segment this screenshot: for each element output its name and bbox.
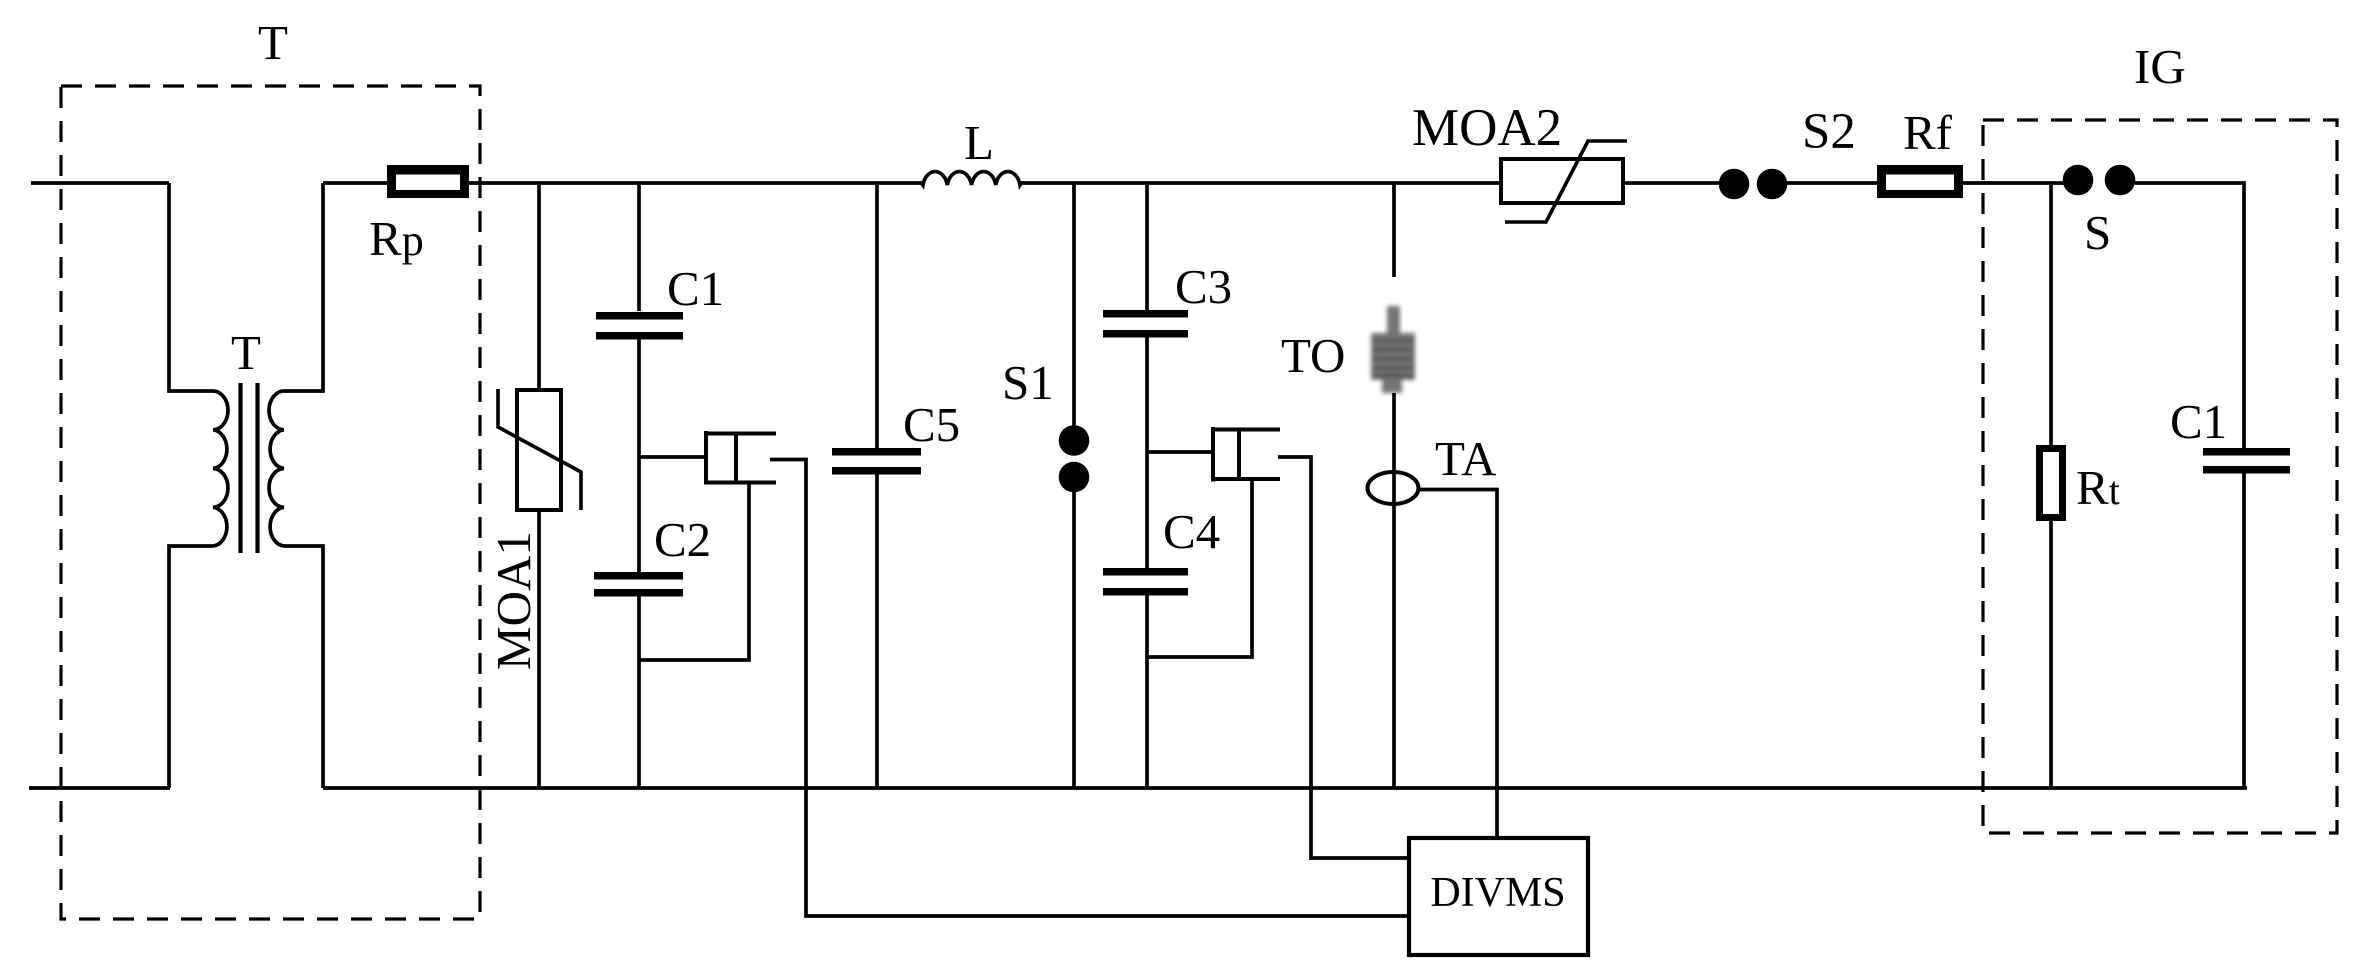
svg-text:C1: C1: [667, 261, 724, 316]
bushing TO: [1371, 306, 1415, 393]
wire right winding top lead: [284, 183, 323, 391]
svg-text:T: T: [258, 15, 288, 70]
svg-text:C3: C3: [1175, 259, 1232, 314]
wire MOA1 branch bottom: [537, 510, 541, 788]
svg-text:C2: C2: [654, 512, 711, 567]
capacitor C1 (IG): [2203, 448, 2290, 474]
capacitor C3: [1103, 310, 1188, 338]
svg-text:S1: S1: [1002, 355, 1054, 410]
wire C3 branch top: [1145, 183, 1149, 310]
svg-text:C1: C1: [2170, 394, 2227, 449]
wire MOA2 to S2: [1623, 181, 1721, 185]
wire left winding lead: [169, 183, 213, 391]
wire C2 bottom: [637, 596, 641, 788]
svg-text:T: T: [231, 325, 261, 380]
wire G1 bottom lead loop: [639, 482, 749, 660]
svg-text:DIVMS: DIVMS: [1430, 870, 1565, 916]
transformer T secondary winding: [269, 391, 284, 546]
wire G2 bottom lead loop: [1147, 479, 1252, 657]
svg-text:Rt: Rt: [2076, 460, 2120, 515]
DIVMS box: [1409, 838, 1588, 955]
capacitor C2: [594, 572, 683, 597]
svg-text:MOA2: MOA2: [1412, 99, 1562, 157]
inductor L: [922, 172, 1021, 185]
svg-text:TA: TA: [1435, 431, 1497, 486]
dashed box IG: [1983, 120, 2337, 833]
svg-text:IG: IG: [2134, 39, 2186, 94]
svg-text:Rf: Rf: [1903, 105, 1953, 160]
dashed box T: [61, 86, 480, 919]
wire gap G2 left lead: [1147, 450, 1211, 454]
transformer T primary winding: [213, 391, 228, 546]
resistor Rf: [1877, 165, 1963, 198]
wire TO to TA to bus: [1392, 393, 1396, 788]
svg-text:C4: C4: [1163, 504, 1220, 559]
wire S to C1 corner: [2135, 183, 2244, 448]
wire Rt bottom: [2049, 521, 2053, 788]
wire left winding bottom lead: [169, 546, 213, 788]
wire bottom-left stub: [29, 786, 170, 790]
wire C1 to C2: [637, 338, 641, 572]
capacitor C5: [832, 448, 921, 475]
wire top bus (winding to Rp to MOA2): [323, 181, 922, 185]
wire Rt branch top: [2049, 183, 2053, 445]
wire bottom bus: [323, 786, 2247, 790]
wire G2 trigger to DIVMS: [1278, 457, 1411, 858]
wire C4 bottom: [1145, 595, 1149, 788]
wire gap G1 left lead: [639, 455, 704, 459]
switch S2 contacts: [1719, 169, 1788, 200]
wire S2 to Rf: [1786, 181, 1877, 185]
switch S1 contacts: [1059, 425, 1090, 492]
wire MOA1 branch top: [537, 183, 541, 390]
svg-text:C5: C5: [903, 397, 960, 452]
resistor Rp: [387, 165, 469, 198]
wire C1 (IG) bottom: [2242, 473, 2246, 788]
capacitor C1: [596, 312, 683, 340]
svg-text:MOA1: MOA1: [486, 531, 541, 670]
wire S1 branch top: [1072, 183, 1076, 428]
spark gap G2: [1211, 427, 1280, 482]
resistor Rt: [2036, 445, 2066, 521]
wire Rf into IG box: [1963, 181, 2064, 185]
svg-text:S: S: [2084, 205, 2111, 260]
varistor MOA2: [1501, 159, 1623, 203]
wire C1 branch top: [637, 183, 641, 311]
wire C5 branch top: [875, 183, 879, 448]
wire right winding bottom lead: [284, 546, 323, 788]
spark gap G1: [704, 431, 776, 484]
wire C5 bottom: [875, 474, 879, 788]
capacitor C4: [1103, 568, 1188, 596]
wire C3 to C4: [1145, 337, 1149, 568]
switch S contacts: [2063, 165, 2136, 196]
wire S1 bottom: [1072, 490, 1076, 788]
svg-text:S2: S2: [1802, 104, 1856, 160]
svg-text:L: L: [964, 115, 994, 170]
wire TA lead to DIVMS: [1418, 490, 1497, 839]
wire TO branch top: [1392, 183, 1396, 277]
current transformer TA: [1368, 472, 1419, 504]
svg-text:TO: TO: [1281, 328, 1345, 383]
svg-text:Rp: Rp: [369, 211, 424, 266]
transformer core: [238, 383, 242, 553]
wire top-left input stub: [31, 181, 169, 185]
varistor MOA1: [517, 390, 561, 510]
wire G1 trigger to DIVMS: [770, 460, 1411, 917]
